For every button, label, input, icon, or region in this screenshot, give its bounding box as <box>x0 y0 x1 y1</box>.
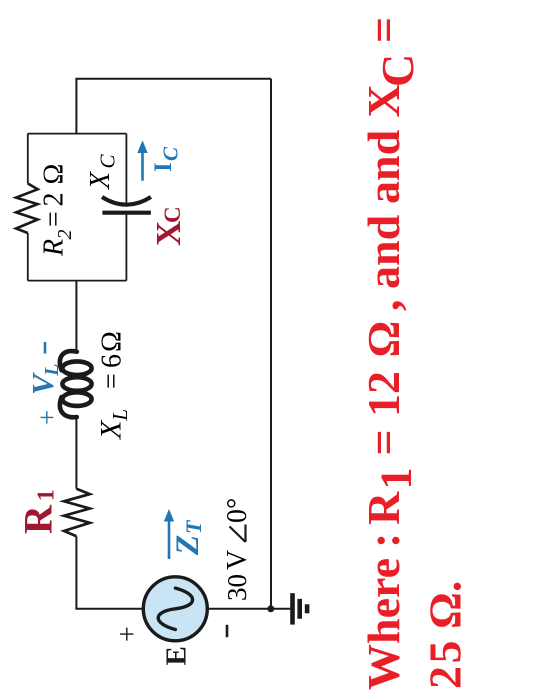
capacitor XC straight plate <box>102 211 150 215</box>
inductor XL coil <box>60 351 92 417</box>
svg-text:C: C <box>160 206 185 223</box>
svg-text:6: 6 <box>97 354 128 368</box>
wire bottom rail <box>270 79 272 609</box>
svg-text:=: = <box>358 429 409 455</box>
ZT arrow (blue) <box>168 521 171 560</box>
svg-text:C: C <box>159 146 183 161</box>
svg-text:Ω: Ω <box>97 331 128 352</box>
wire right vertical <box>75 78 271 80</box>
svg-text::: : <box>358 533 409 548</box>
svg-text:,: , <box>358 300 409 312</box>
svg-text:Ω: Ω <box>358 321 409 358</box>
svg-text:+: + <box>113 626 144 642</box>
svg-text:and: and <box>358 214 409 289</box>
svg-text:=: = <box>39 211 70 227</box>
svg-text:VL: VL <box>25 364 63 395</box>
svg-text:C: C <box>372 54 423 87</box>
svg-text:2: 2 <box>54 230 76 240</box>
red caption line 1 <box>358 17 423 690</box>
svg-text:+: + <box>32 410 62 425</box>
svg-text:X: X <box>149 221 188 246</box>
svg-text:0: 0 <box>222 509 253 523</box>
svg-text:XL: XL <box>95 409 133 440</box>
junction node dot <box>267 605 274 612</box>
source E circle <box>143 577 207 641</box>
svg-text:1: 1 <box>372 468 421 490</box>
wire rail R1 to inductor <box>75 417 77 489</box>
wire rail inductor to box <box>75 281 77 352</box>
red caption line 2 <box>420 581 471 689</box>
svg-text:X: X <box>85 171 116 190</box>
parallel box outline <box>28 134 127 281</box>
svg-text:2: 2 <box>39 193 70 207</box>
ground bar 3 <box>305 604 310 613</box>
svg-text:R1: R1 <box>16 489 61 534</box>
svg-text:R: R <box>358 491 409 525</box>
svg-text:V: V <box>222 550 253 570</box>
svg-text:Ω: Ω <box>39 164 70 185</box>
svg-text:E: E <box>161 646 193 665</box>
IC arrow (blue) <box>141 152 144 181</box>
resistor R2 on box top edge <box>16 184 38 234</box>
ground bar 2 <box>297 599 302 619</box>
svg-text:25: 25 <box>420 638 471 689</box>
svg-text:Z: Z <box>170 535 206 556</box>
svg-text:and: and <box>358 129 409 204</box>
svg-text:=: = <box>97 373 128 389</box>
label minus of source <box>226 625 229 637</box>
svg-text:Ω.: Ω. <box>420 581 471 629</box>
wire box right to corner <box>75 79 77 134</box>
sine wave inside source <box>158 588 192 629</box>
svg-text:=: = <box>358 17 409 43</box>
svg-text:R: R <box>39 239 70 257</box>
ground stem <box>271 608 290 610</box>
capacitor XC curved plate <box>102 197 151 205</box>
svg-text:C: C <box>96 154 120 169</box>
wire top rail from source corner to R1 <box>75 536 77 609</box>
angle symbol <box>230 525 246 543</box>
source top lead <box>75 608 144 610</box>
source bottom lead <box>207 608 271 610</box>
svg-text:12: 12 <box>358 371 409 417</box>
svg-text:°: ° <box>222 498 253 509</box>
resistor R1 <box>64 489 90 537</box>
ground bar 1 <box>290 593 295 624</box>
svg-text:X: X <box>358 84 409 117</box>
svg-text:T: T <box>181 519 206 534</box>
svg-text:30: 30 <box>222 574 252 601</box>
svg-text:Where: Where <box>358 558 409 690</box>
svg-text:I: I <box>150 162 177 172</box>
